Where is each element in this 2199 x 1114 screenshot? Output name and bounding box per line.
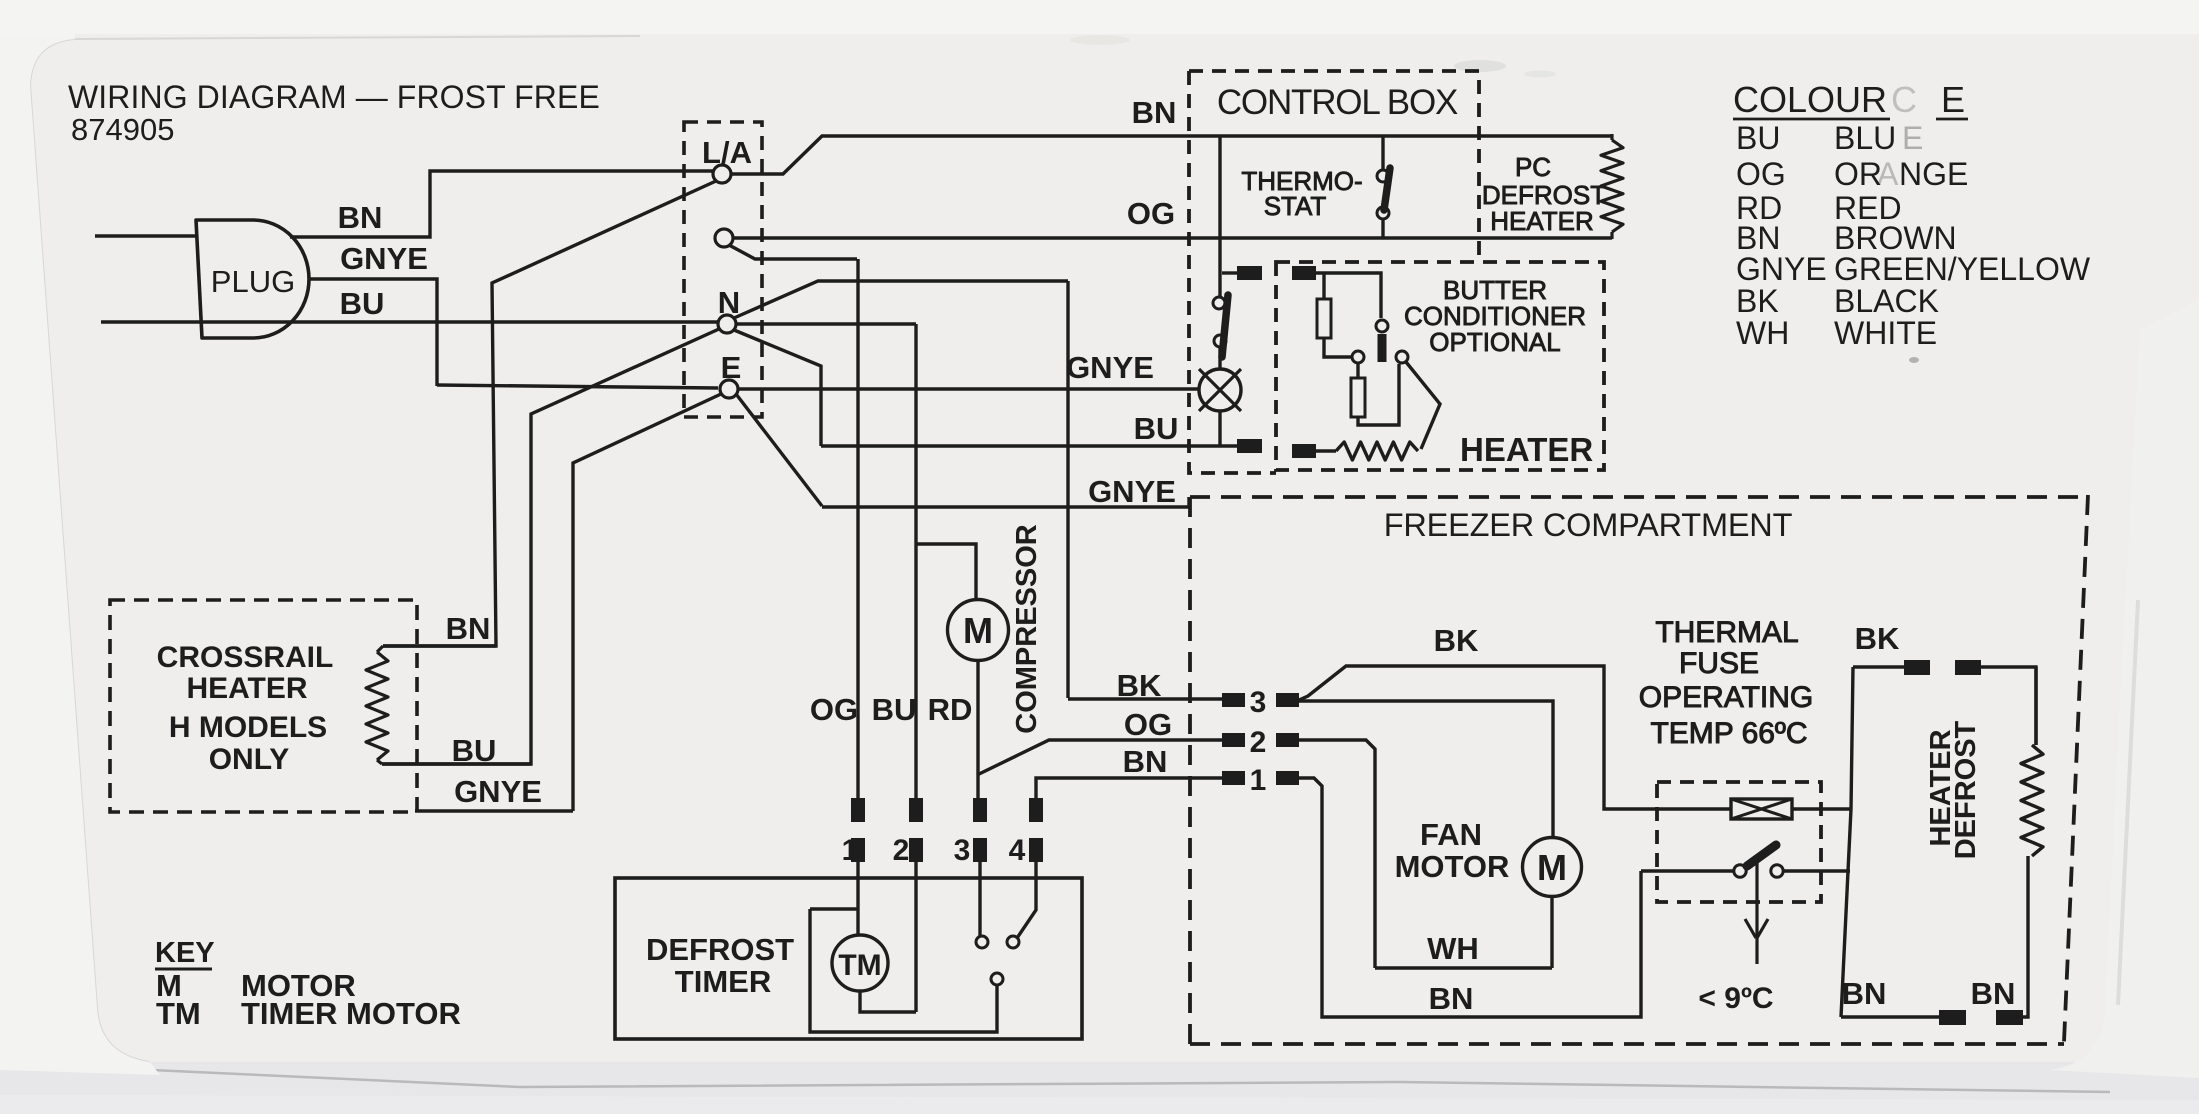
svg-text:RD: RD: [928, 692, 973, 727]
terminal L/A: [713, 165, 731, 183]
wire BN branch to freezer pin 1: [1036, 778, 1222, 798]
svg-text:M: M: [963, 610, 993, 651]
freezer pin 3 right pad: [1276, 693, 1299, 707]
connector pin 1 lower pad: [851, 838, 865, 862]
svg-text:CONTROL BOX: CONTROL BOX: [1217, 83, 1458, 122]
resistor R1 butter: [1317, 299, 1331, 338]
connector pad BN right: [1996, 1010, 2023, 1025]
svg-text:1: 1: [1250, 764, 1267, 797]
wire OG rail terminal 2 to control box: [733, 236, 1612, 239]
defrost thermostat contact left: [1734, 865, 1746, 877]
svg-text:OPTIONAL: OPTIONAL: [1429, 327, 1560, 357]
butter switch contact feed: [1376, 320, 1388, 332]
svg-text:TM: TM: [156, 996, 201, 1031]
wire lamp to BU rail: [1218, 411, 1221, 446]
wire R2 to contact B: [1358, 364, 1399, 425]
wire N to BK feed column: [734, 281, 1068, 318]
svg-text:BU: BU: [872, 692, 917, 727]
wire L/A to BN rail of control box: [731, 136, 1612, 174]
defrost thermostat blade: [1747, 845, 1776, 866]
svg-text:M: M: [1537, 847, 1567, 888]
terminal 2 (unlabelled): [715, 229, 733, 247]
resistor crossrail heater: [366, 646, 388, 764]
resistor R2 butter: [1351, 378, 1365, 417]
wire heater defrost top lead: [2034, 667, 2037, 745]
wire E diagonal to crossrail GNYE line: [573, 394, 721, 811]
thermostat feed wire: [1381, 136, 1384, 170]
svg-text:BU: BU: [340, 286, 385, 321]
wire L/A diagonal to crossrail heater BN lead: [383, 181, 716, 646]
wire pin1 BN to switch: [1299, 778, 1641, 1017]
key underline: [155, 968, 212, 971]
svg-text:BN: BN: [1842, 976, 1887, 1011]
svg-text:1: 1: [842, 834, 859, 867]
wire right contact to riser: [1784, 869, 1850, 872]
svg-text:BLACK: BLACK: [1834, 283, 1939, 319]
freezer pin 3 left pad: [1222, 693, 1245, 707]
svg-text:OR: OR: [1834, 156, 1882, 192]
svg-text:STAT: STAT: [1264, 191, 1327, 221]
wire contact to lamp: [1218, 347, 1221, 369]
svg-text:HEATER: HEATER: [1490, 206, 1594, 236]
svg-text:OG: OG: [1124, 707, 1172, 742]
defrost thermostat contact right: [1771, 865, 1783, 877]
freezer pin 2 right pad: [1276, 733, 1299, 747]
svg-text:WH: WH: [1427, 931, 1479, 966]
resistor butter heater: [1336, 442, 1418, 460]
temperature probe line: [1755, 861, 1758, 964]
svg-text:A: A: [1877, 156, 1899, 192]
svg-text:BU: BU: [452, 733, 497, 768]
svg-text:BN: BN: [1429, 981, 1474, 1016]
svg-text:GNYE: GNYE: [1736, 251, 1827, 287]
lamp interior light: [1199, 369, 1241, 411]
wire riser top to BK pads: [1853, 665, 1904, 668]
wire BK feed column: [1066, 281, 1069, 698]
wire crossrail GNYE line: [415, 809, 573, 812]
wire branch to resistor R1: [1322, 273, 1325, 299]
wire pin2 to fan motor WH: [1299, 740, 1375, 968]
timer switch arm contact: [991, 973, 1003, 985]
svg-text:KEY: KEY: [155, 937, 215, 969]
wire OG column (to connector pin 1): [856, 259, 859, 798]
wire E-line from GNYE corner to terminal E: [437, 385, 718, 388]
freezer compartment dashed outline: [1190, 495, 2088, 1044]
wire BU rail to control box lamp: [821, 444, 1237, 447]
wire E diagonal to lower GNYE rail: [736, 394, 822, 506]
wire BK to freezer pin 3: [1068, 697, 1222, 700]
timer switch contact A: [976, 936, 988, 948]
resistor PC defrost heater: [1601, 134, 1623, 239]
svg-text:DEFROST: DEFROST: [1950, 720, 1982, 859]
wire R1 to contact A: [1324, 338, 1352, 357]
svg-text:COMPRESSOR: COMPRESSOR: [1011, 524, 1043, 734]
wire BU column (to connector pin 2): [914, 324, 917, 798]
connector pad BN left: [1939, 1010, 1966, 1025]
wire pin3 to fan motor: [1299, 701, 1553, 838]
svg-text:WH: WH: [1736, 315, 1789, 351]
svg-text:3: 3: [1250, 686, 1267, 719]
svg-text:HEATER: HEATER: [186, 672, 307, 705]
thermostat contact top: [1377, 170, 1389, 182]
svg-text:2: 2: [1250, 726, 1267, 759]
colour code underline: [1733, 118, 1968, 121]
wire BN pads to heater defrost bottom: [2023, 856, 2028, 1017]
timer switch contact B: [1007, 936, 1019, 948]
svg-text:BK: BK: [1434, 623, 1479, 658]
svg-text:TM: TM: [838, 949, 881, 982]
temperature probe arrow: [1745, 919, 1768, 938]
freezer pin 1 left pad: [1222, 771, 1245, 785]
wire crossrail BU lead: [382, 762, 531, 765]
svg-text:3: 3: [954, 834, 971, 867]
connector pin 4 upper pad: [1029, 798, 1043, 822]
connector pad control box upper: [1237, 266, 1262, 280]
switch door/light contact top: [1213, 297, 1225, 309]
svg-text:HEATER: HEATER: [1460, 431, 1593, 468]
svg-text:OG: OG: [1736, 156, 1786, 192]
connector pad stub (control box BU): [1222, 271, 1237, 274]
wire left contact feed: [1641, 869, 1733, 872]
svg-text:C: C: [1891, 79, 1917, 120]
svg-text:874905: 874905: [71, 112, 174, 147]
wire BK pads to heater defrost: [1981, 667, 2036, 745]
svg-text:BK: BK: [1736, 283, 1779, 319]
connector pin 1 upper pad: [851, 798, 865, 822]
wire N to BU column: [736, 322, 916, 325]
wire pin 4 into timer box: [1017, 862, 1036, 938]
svg-text:WIRING DIAGRAM — FROST FREE: WIRING DIAGRAM — FROST FREE: [68, 79, 600, 115]
svg-text:H MODELS: H MODELS: [169, 711, 327, 744]
svg-text:ONLY: ONLY: [209, 743, 290, 776]
defrost timer box: [615, 878, 1082, 1039]
svg-text:THERMAL: THERMAL: [1655, 616, 1798, 649]
motor M1 compressor circle: [948, 600, 1009, 661]
svg-text:WHITE: WHITE: [1834, 315, 1937, 351]
svg-text:PLUG: PLUG: [211, 264, 295, 299]
connector pin 2 upper pad: [909, 798, 923, 822]
svg-text:TIMER MOTOR: TIMER MOTOR: [241, 996, 461, 1031]
svg-text:TEMP 66ºC: TEMP 66ºC: [1650, 717, 1807, 750]
wire compressor branch to freezer OG: [977, 740, 1222, 775]
crossrail heater dashed box: [110, 600, 417, 812]
wire BU column tap to compressor: [915, 544, 976, 600]
wire riser to BN pads: [1841, 1015, 1939, 1018]
wire BK to thermal fuse: [1299, 666, 1731, 809]
svg-text:OG: OG: [810, 692, 858, 727]
svg-text:< 9ºC: < 9ºC: [1698, 982, 1773, 1015]
svg-text:GNYE: GNYE: [1088, 474, 1176, 509]
svg-text:BK: BK: [1855, 621, 1900, 656]
terminal E: [720, 380, 738, 398]
wire pin 2 into timer box: [914, 862, 917, 1012]
svg-text:2: 2: [893, 834, 910, 867]
wire mains neutral input (runs through plug to terminal N): [101, 320, 718, 323]
svg-text:BN: BN: [446, 611, 491, 646]
terminal block dashed outline: [684, 122, 762, 417]
wire contact A to resistor R2: [1356, 363, 1359, 378]
connector pin 3 upper pad: [973, 798, 987, 822]
svg-text:E: E: [1902, 120, 1923, 156]
wire pin 3 into timer box: [978, 862, 981, 936]
thermal fuse dashed box: [1657, 782, 1821, 902]
wire terminal 2 to OG column: [729, 245, 857, 259]
svg-text:COLOUR: COLOUR: [1733, 79, 1887, 120]
terminal N: [718, 315, 736, 333]
wire mains line input top: [95, 234, 196, 237]
svg-text:GREEN/YELLOW: GREEN/YELLOW: [1834, 251, 2091, 287]
svg-text:BN: BN: [1123, 744, 1168, 779]
wire butter feed: [1316, 273, 1381, 318]
wire pin 1 into timer box: [856, 862, 859, 935]
control box dashed outline: [1189, 71, 1479, 473]
wire lower GNYE rail to freezer corner: [822, 497, 1189, 507]
thermostat blade: [1384, 168, 1390, 210]
switch door/light contact bottom: [1214, 335, 1226, 347]
svg-text:NGE: NGE: [1899, 156, 1968, 192]
fuse F1 body: [1731, 799, 1792, 819]
connector pin 2 lower pad: [909, 838, 923, 862]
wire plug BN to corner: [290, 171, 713, 237]
wire N to BU rail corner: [734, 330, 821, 446]
svg-text:E: E: [1941, 79, 1965, 120]
wire timer internal loop: [810, 909, 997, 1032]
svg-text:DEFROST: DEFROST: [646, 932, 794, 967]
wire control box left vertical: [1218, 136, 1221, 297]
svg-text:BK: BK: [1117, 668, 1162, 703]
svg-text:GNYE: GNYE: [340, 241, 428, 276]
svg-text:BU: BU: [1736, 120, 1780, 156]
butter conditioner dashed box: [1276, 262, 1604, 470]
svg-text:BN: BN: [1132, 95, 1177, 130]
butter switch arm: [1406, 362, 1440, 449]
svg-text:BN: BN: [338, 200, 383, 235]
svg-text:BU: BU: [1134, 411, 1179, 446]
butter switch contact B: [1396, 351, 1408, 363]
connector pad butter box lower: [1292, 444, 1316, 458]
svg-text:GNYE: GNYE: [454, 774, 542, 809]
wire thermostat to OG rail: [1381, 219, 1384, 238]
wire GNYE rail terminal E to lamp: [738, 387, 1199, 390]
wire compressor to connector pin 3: [976, 661, 979, 798]
svg-text:4: 4: [1009, 834, 1026, 867]
svg-text:OPERATING: OPERATING: [1639, 681, 1813, 714]
resistor heater defrost: [2021, 745, 2043, 856]
svg-text:FREEZER COMPARTMENT: FREEZER COMPARTMENT: [1384, 507, 1793, 543]
svg-text:FUSE: FUSE: [1679, 647, 1759, 680]
wire N diagonal to crossrail heater BU lead: [382, 329, 719, 764]
svg-text:MOTOR: MOTOR: [1395, 849, 1510, 884]
wire fuse right lead: [1792, 807, 1852, 810]
wire heater left lead: [1316, 449, 1336, 452]
svg-text:BN: BN: [1971, 976, 2016, 1011]
svg-text:CROSSRAIL: CROSSRAIL: [157, 641, 334, 674]
wire plug GNYE to corner: [309, 279, 437, 386]
svg-text:PC: PC: [1515, 152, 1551, 182]
switch door/light blade: [1222, 295, 1228, 357]
plug P1 body: [196, 220, 309, 338]
freezer pin 2 left pad: [1222, 733, 1245, 747]
connector pad BK left: [1904, 660, 1930, 675]
timer motor TM circle: [832, 935, 888, 991]
wire TM bottom to pin2 column: [860, 991, 916, 1012]
wire crossrail BN lead: [383, 644, 496, 647]
svg-text:BLU: BLU: [1834, 120, 1896, 156]
svg-text:TIMER: TIMER: [675, 964, 771, 999]
freezer pin 1 right pad: [1276, 771, 1299, 785]
wire BK riser right: [1841, 667, 1853, 1017]
connector pin 3 lower pad: [973, 838, 987, 862]
connector pad butter box upper: [1292, 266, 1316, 280]
svg-text:OG: OG: [1127, 196, 1175, 231]
connector pad control box lower (BU): [1237, 439, 1262, 453]
svg-text:GNYE: GNYE: [1066, 350, 1154, 385]
butter switch contact A: [1352, 351, 1364, 363]
connector pin 4 lower pad: [1029, 838, 1043, 862]
thermostat contact bottom: [1377, 207, 1389, 219]
svg-text:FAN: FAN: [1420, 817, 1482, 852]
butter switch blade (bar): [1378, 334, 1387, 362]
connector pad BK right: [1955, 660, 1981, 675]
wire WH to fan bottom: [1375, 897, 1552, 968]
motor M2 fan circle: [1523, 838, 1582, 897]
